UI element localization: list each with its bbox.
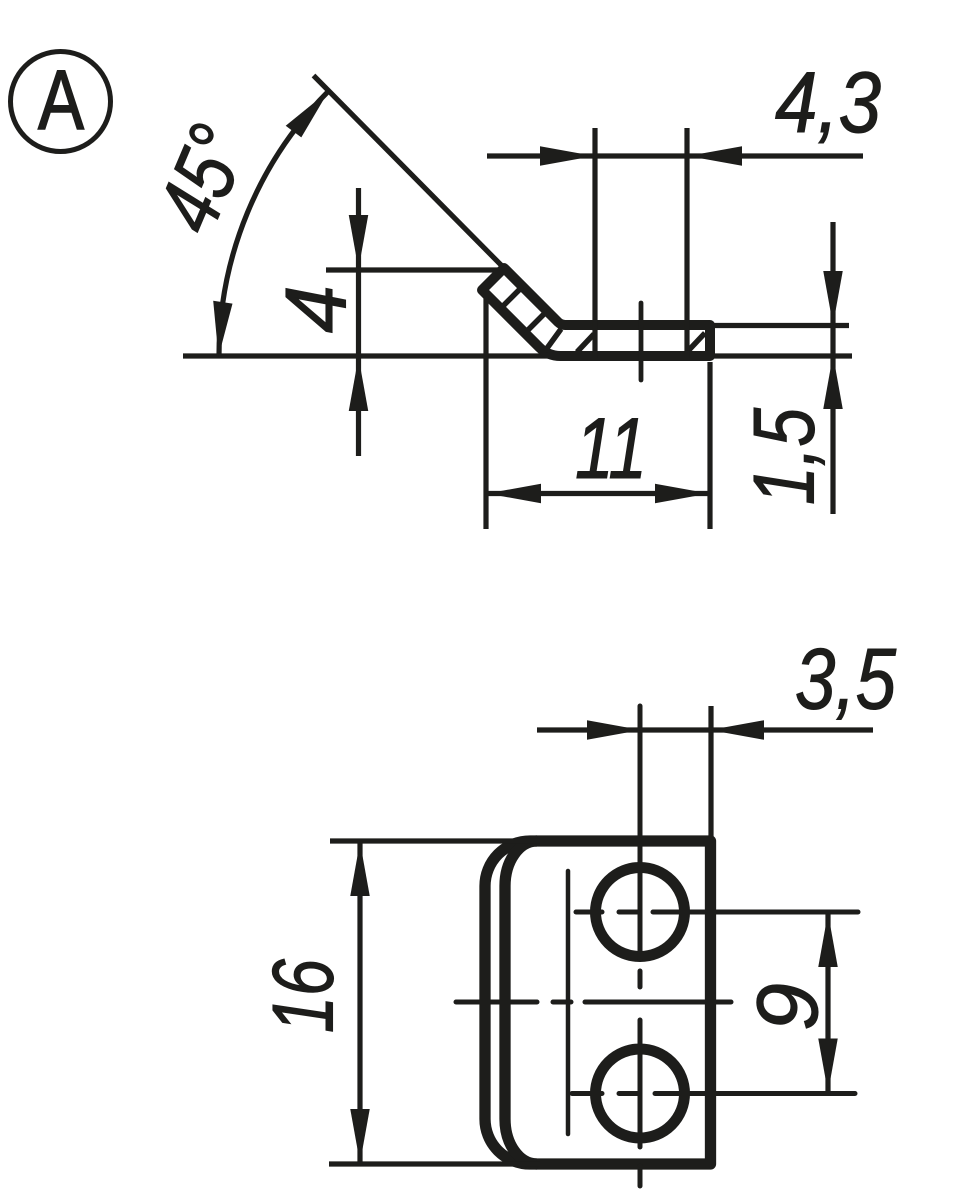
hole edge left / extension line 4,3 left: [592, 128, 597, 358]
middle horizontal centerline: [456, 1000, 537, 1005]
hole lower: [596, 1049, 685, 1138]
svg-text:4: 4: [269, 285, 365, 333]
arrow 3,5 left (points right): [587, 720, 641, 740]
top surface extension line (right of part): [712, 323, 849, 328]
hatch flat right: [688, 333, 705, 351]
dimension 1,5: vertical line: [830, 222, 835, 514]
dimension line 4,3: [487, 153, 863, 158]
arrow 1,5 bottom (points up): [823, 355, 843, 409]
dimension 3,5: extension right edge: [708, 706, 713, 838]
arrow 4 top (points down): [349, 215, 369, 269]
dimension 11: extension left: [483, 297, 488, 529]
hole centerline (top view): [639, 303, 644, 380]
reference line y=270 (top of dimension 4): [326, 267, 502, 272]
svg-text:16: 16: [256, 959, 352, 1033]
upper hole horizontal centerline: [576, 910, 602, 915]
hatch bend: [545, 329, 561, 351]
arrow 16 bottom (points down): [350, 1109, 370, 1163]
svg-text:A: A: [38, 53, 84, 147]
lower hole horizontal centerline: [572, 1091, 602, 1096]
arrow 11 right (points right): [655, 484, 709, 504]
dimension 4: vertical line: [356, 188, 361, 456]
dimension 9: dimension line: [825, 912, 830, 1094]
arrow 3,5 right (points left): [710, 720, 764, 740]
baseline: [183, 353, 852, 358]
fold line: [566, 871, 571, 1134]
arc arrowhead top: [286, 91, 329, 138]
arrow 4,3 left (points right): [540, 146, 594, 166]
dimension 16: extension top: [330, 838, 540, 843]
dimension line 16: [357, 841, 362, 1164]
bend tab inner edge: [505, 841, 537, 1164]
svg-text:4,3: 4,3: [775, 55, 881, 151]
part outline bottom view: [485, 841, 711, 1164]
dimension 16: extension bottom: [329, 1161, 540, 1166]
arrow 11 left (points left): [487, 484, 541, 504]
hatch incline 2: [525, 311, 547, 333]
hole upper: [596, 868, 685, 957]
svg-text:1,5: 1,5: [737, 407, 833, 505]
arrow 4 bottom (points up): [349, 357, 369, 411]
arrow 1,5 top (points down): [823, 271, 843, 325]
vertical centerline segments: [638, 706, 643, 959]
view label circle A: [11, 52, 111, 152]
dimension line 3,5: [537, 727, 873, 732]
hatch incline 1: [501, 287, 523, 309]
arrow 9 bottom (points down): [818, 1039, 838, 1093]
hole edge right / extension line 4,3 right: [684, 128, 689, 358]
dimension 11: extension right: [707, 362, 712, 529]
part section outline: [482, 268, 710, 356]
svg-text:3,5: 3,5: [795, 632, 897, 728]
arrow 16 top (points up): [350, 842, 370, 896]
svg-text:11: 11: [575, 401, 647, 497]
hatch flat left: [577, 334, 594, 352]
svg-text:9: 9: [740, 983, 836, 1031]
angle dimension arc 45deg: [219, 91, 329, 356]
arrow 9 top (points up): [818, 913, 838, 967]
arc arrowhead bottom: [213, 301, 232, 357]
dimension line 11: [486, 491, 710, 496]
45-degree extension line: [314, 76, 505, 269]
arrow 4,3 right (points left): [688, 146, 742, 166]
